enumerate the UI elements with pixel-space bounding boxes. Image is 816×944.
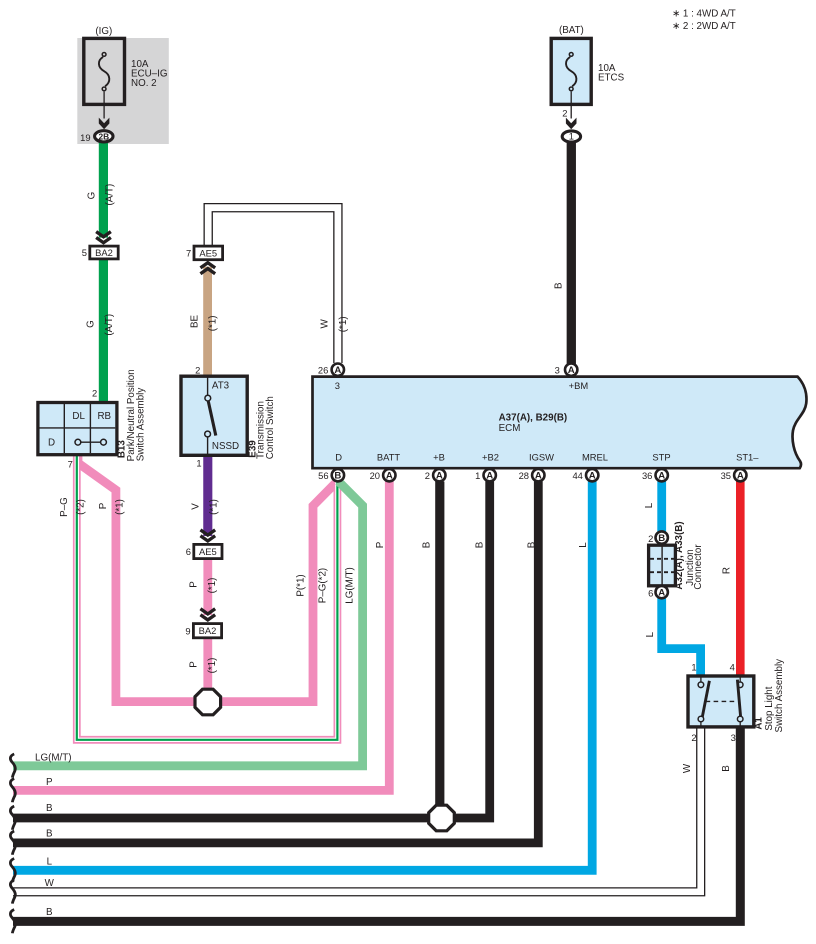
connector oval 1 — [562, 131, 580, 142]
svg-text:AE5: AE5 — [199, 247, 217, 258]
wire B: ECM +B pin 2 down into splice octagon — [435, 482, 444, 809]
svg-text:B: B — [46, 907, 53, 918]
svg-text:A: A — [386, 471, 393, 482]
connector box AE5 pin 7 — [194, 246, 223, 260]
svg-text:2: 2 — [562, 108, 567, 119]
B13 internal switch contacts — [78, 441, 104, 443]
svg-text:LG(M/T): LG(M/T) — [345, 567, 356, 603]
chevron arrow on G wire — [96, 232, 111, 243]
wire P (*1): B13 pin7 down, across splice, up to ECM pin 56 D — [78, 454, 337, 702]
wire G (A/T) from fuse 2B down to BA2 and B13 pin 2 — [99, 142, 108, 238]
svg-text:1: 1 — [475, 470, 480, 481]
switch assembly A1 Stop Light — [688, 676, 754, 727]
svg-text:A32(A), A33(B): A32(A), A33(B) — [674, 521, 685, 589]
svg-text:(IG): (IG) — [95, 26, 112, 37]
svg-text:B: B — [334, 471, 341, 482]
svg-text:(*2): (*2) — [76, 499, 87, 515]
wire L: junction connector pin 6 to stop light switch pin 1 — [662, 598, 701, 677]
connector oval 2B pin 19 — [95, 131, 113, 142]
svg-text:P: P — [189, 661, 200, 668]
splice octagon (black B circuit) — [429, 805, 455, 831]
splice octagon (pink P circuit) — [195, 689, 221, 715]
svg-text:B: B — [46, 828, 53, 839]
svg-text:∗ 1 : 4WD A/T: ∗ 1 : 4WD A/T — [672, 8, 736, 19]
svg-text:56: 56 — [318, 470, 328, 481]
wire B: ECM IGSW pin 28 to left edge — [13, 482, 538, 843]
svg-text:P: P — [46, 777, 53, 788]
svg-text:2: 2 — [691, 732, 696, 743]
svg-text:(BAT): (BAT) — [559, 25, 584, 36]
svg-text:W: W — [45, 878, 55, 889]
fuse 10A ETCS (BAT) — [551, 38, 591, 104]
svg-text:35: 35 — [721, 470, 731, 481]
svg-text:B: B — [527, 541, 538, 548]
svg-text:BA2: BA2 — [199, 625, 217, 636]
chevron arrow on BE wire (up) — [200, 263, 215, 274]
svg-text:(A/T): (A/T) — [105, 184, 116, 206]
svg-text:(*1): (*1) — [115, 499, 126, 515]
svg-text:∗ 2 : 2WD A/T: ∗ 2 : 2WD A/T — [672, 21, 736, 32]
svg-text:26: 26 — [318, 364, 328, 375]
svg-text:P–G(*2): P–G(*2) — [318, 568, 329, 603]
svg-text:2: 2 — [425, 470, 430, 481]
wire B from ETCS fuse to ECM +BM — [567, 142, 576, 364]
svg-text:P: P — [189, 581, 200, 588]
svg-text:Connector: Connector — [693, 544, 704, 590]
wire P (*1) BA2 pin9 to splice octagon — [203, 638, 212, 695]
connector box BA2 pin 9 — [193, 624, 221, 638]
svg-text:MREL: MREL — [582, 451, 608, 462]
svg-text:ST1–: ST1– — [736, 451, 759, 462]
svg-text:A: A — [535, 471, 542, 482]
svg-text:RB: RB — [97, 411, 111, 422]
svg-text:P: P — [98, 502, 109, 509]
svg-text:G: G — [87, 192, 98, 200]
svg-text:D: D — [335, 451, 342, 462]
svg-text:2: 2 — [648, 533, 653, 544]
svg-text:L: L — [644, 502, 655, 508]
svg-text:BA2: BA2 — [95, 247, 113, 258]
svg-text:B: B — [46, 803, 53, 814]
wire break squiggles at left margin — [10, 754, 15, 778]
svg-text:A: A — [737, 471, 744, 482]
svg-text:A: A — [658, 588, 665, 599]
connector box AE5 pin 6 — [194, 544, 222, 558]
svg-text:BATT: BATT — [377, 451, 401, 462]
switch E39 Transmission Control (AT3/NSSD) — [181, 376, 247, 455]
svg-text:9: 9 — [185, 625, 190, 636]
svg-text:DL: DL — [72, 411, 85, 422]
junction connector A32(A), A33(B) — [656, 531, 668, 543]
wire P (*1) AE5 pin6 to BA2 pin9 — [203, 559, 212, 616]
svg-text:A: A — [568, 365, 575, 376]
svg-text:NSSD: NSSD — [212, 441, 239, 452]
svg-text:B: B — [554, 282, 565, 289]
svg-text:(*1): (*1) — [208, 316, 219, 332]
svg-text:LG(M/T): LG(M/T) — [35, 753, 71, 764]
svg-text:Switch Assembly: Switch Assembly — [774, 659, 785, 733]
svg-text:V: V — [191, 503, 202, 510]
svg-text:D: D — [48, 437, 55, 448]
svg-text:1: 1 — [569, 131, 574, 142]
svg-text:2: 2 — [195, 364, 200, 375]
svg-text:5: 5 — [82, 247, 87, 258]
svg-text:3: 3 — [731, 732, 736, 743]
svg-text:L: L — [47, 857, 53, 868]
svg-text:3: 3 — [555, 364, 560, 375]
svg-text:B: B — [475, 541, 486, 548]
svg-text:B: B — [721, 765, 732, 772]
svg-text:A: A — [486, 471, 493, 482]
svg-text:AE5: AE5 — [199, 546, 217, 557]
svg-text:3: 3 — [335, 380, 340, 391]
svg-text:W: W — [682, 763, 693, 773]
svg-text:+B2: +B2 — [482, 451, 499, 462]
svg-text:28: 28 — [519, 470, 529, 481]
fuse 10A ECU-IG NO.2 (IG) — [84, 38, 125, 104]
svg-text:G: G — [86, 320, 97, 328]
svg-text:44: 44 — [572, 470, 582, 481]
svg-text:6: 6 — [186, 546, 191, 557]
svg-text:2B: 2B — [98, 132, 109, 142]
svg-text:P(*1): P(*1) — [296, 574, 307, 596]
ECM A37(A), B29(B) — [313, 377, 807, 469]
svg-text:STP: STP — [652, 451, 670, 462]
svg-text:7: 7 — [68, 459, 73, 470]
wire W (*1) from AE5 pin 7 to ECM pin 26 (white outlined) — [208, 208, 338, 363]
svg-text:R: R — [722, 567, 733, 574]
svg-text:ECM: ECM — [499, 423, 521, 434]
svg-text:W: W — [320, 319, 331, 329]
svg-text:(A/T): (A/T) — [104, 314, 115, 336]
svg-text:36: 36 — [642, 470, 652, 481]
svg-text:(*1): (*1) — [207, 578, 218, 594]
svg-text:(*1): (*1) — [209, 499, 220, 515]
wire W: stop light switch pin 2 to left edge (white outlined) — [13, 727, 701, 892]
connector box BA2 pin 5 — [90, 246, 118, 259]
svg-text:A: A — [436, 471, 443, 482]
svg-text:B: B — [658, 533, 665, 544]
svg-text:+BM: +BM — [569, 380, 589, 391]
svg-text:P–G: P–G — [59, 497, 70, 517]
wire R: ECM ST1- pin 35 to stop light switch pin 4 — [736, 482, 745, 677]
wire B: left edge through splice up to ECM +B2 pin 1 — [13, 482, 490, 819]
ECM top pins — [332, 364, 344, 376]
wire L: ECM STP pin 36 to junction connector pin 2 — [657, 482, 666, 533]
wire L: ECM MREL pin 44 to left edge — [13, 482, 592, 871]
wire P-G (*2): B13 pin7 to ECM pin 56 D (pink w/ green tracer) — [77, 454, 338, 740]
chevron arrow on V wire — [200, 530, 215, 541]
svg-text:+B: +B — [433, 451, 445, 462]
svg-text:Switch Assembly: Switch Assembly — [135, 388, 146, 462]
svg-text:1: 1 — [196, 458, 201, 469]
svg-text:20: 20 — [370, 470, 380, 481]
svg-text:19: 19 — [80, 132, 90, 143]
svg-text:2: 2 — [92, 388, 97, 399]
svg-text:IGSW: IGSW — [529, 451, 554, 462]
svg-text:1: 1 — [691, 662, 696, 673]
svg-text:Control Switch: Control Switch — [265, 396, 276, 459]
svg-text:P: P — [375, 541, 386, 548]
svg-text:AT3: AT3 — [212, 381, 230, 392]
svg-text:(*1): (*1) — [207, 658, 218, 674]
svg-text:L: L — [645, 631, 656, 637]
fuse block panel (gray) — [77, 38, 169, 144]
svg-text:B: B — [422, 541, 433, 548]
svg-text:A: A — [334, 365, 341, 376]
chevron arrow on P wire — [200, 609, 215, 620]
wire LG(M/T): ECM pin 56 D to left edge — [13, 482, 363, 766]
svg-text:NO. 2: NO. 2 — [131, 78, 157, 89]
wire P: ECM BATT pin 20 to left edge — [13, 482, 389, 791]
svg-text:4: 4 — [730, 662, 735, 673]
switch assembly B13 Park/Neutral Position — [38, 403, 117, 455]
wire BE (*1) from AT3 pin 2 up to AE5 pin 7 — [203, 267, 212, 377]
svg-text:A: A — [658, 471, 665, 482]
svg-text:A37(A), B29(B): A37(A), B29(B) — [499, 412, 568, 423]
wire B: stop light switch pin 3 to left edge — [13, 727, 740, 921]
ECM bottom pins — [332, 469, 344, 481]
svg-text:ETCS: ETCS — [598, 72, 625, 83]
svg-text:BE: BE — [190, 315, 201, 329]
svg-text:(*1): (*1) — [338, 316, 349, 332]
svg-text:A: A — [589, 471, 596, 482]
svg-text:7: 7 — [186, 248, 191, 259]
svg-text:6: 6 — [648, 587, 653, 598]
wire V (*1) from AT3 pin 1 down to AE5 pin 6 — [203, 455, 212, 537]
svg-text:L: L — [578, 542, 589, 548]
